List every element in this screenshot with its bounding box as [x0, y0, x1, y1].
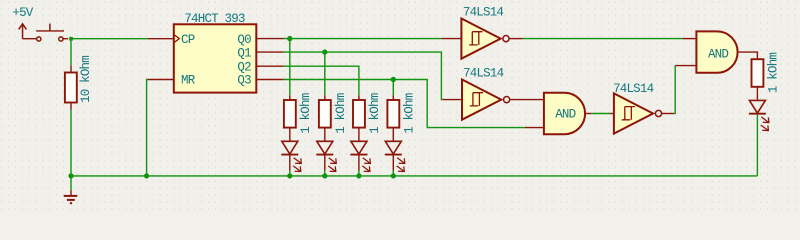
wire Q1 down to R3 [324, 52, 326, 95]
inverter U2A 74LS14 [461, 19, 509, 59]
svg-text:10 kOhm: 10 kOhm [79, 56, 93, 103]
LED D5 [749, 100, 769, 130]
wire Q0 to inverter U2A input [284, 38, 442, 40]
wire D1 to ground bus [289, 171, 291, 176]
wire power to switch [23, 38, 37, 40]
pin stub AND U4A lower input [675, 65, 696, 67]
svg-text:Q3: Q3 [237, 74, 251, 88]
LED D3 [350, 141, 370, 171]
wire Q3 down to R5 [392, 80, 394, 96]
wire Q2 down to R4 [284, 66, 359, 95]
resistor R1 10 kOhm [65, 65, 77, 109]
pin stub AND U4A top input [683, 38, 697, 40]
LED D4 [385, 141, 405, 171]
svg-text:+5V: +5V [12, 6, 33, 20]
pin stub inverter U2C input [610, 113, 614, 115]
svg-text:74HCT 393: 74HCT 393 [184, 12, 245, 26]
svg-text:74LS14: 74LS14 [613, 82, 654, 96]
inverter U2B 74LS14 [462, 80, 510, 120]
svg-text:MR: MR [181, 74, 196, 88]
junction ground bus / D1 [287, 173, 292, 178]
junction Q3 / R5 [391, 77, 396, 82]
pin stub AND U3A lower input [525, 127, 544, 129]
junction ground bus / MR [144, 173, 149, 178]
AND gate U3A [544, 93, 585, 134]
svg-text:1 kOhm: 1 kOhm [767, 53, 781, 94]
junction ground bus / R1 [68, 173, 73, 178]
wire D5 to ground bus [756, 115, 758, 176]
pin stub inverter U2A input [441, 38, 461, 40]
resistor R3 1 kOhm [319, 95, 331, 141]
resistor R2 1 kOhm [284, 95, 296, 141]
wire Q0 down to R2 [289, 39, 291, 96]
svg-text:AND: AND [708, 48, 728, 62]
wire D2 to ground bus [324, 171, 326, 176]
svg-text:Q2: Q2 [237, 60, 251, 74]
inverter U2C 74LS14 [614, 93, 662, 133]
junction ground bus / D4 [391, 173, 396, 178]
wire D4 to ground bus [392, 171, 394, 176]
pin stub inverter U2A output [509, 38, 522, 40]
clock chevron on CP [174, 35, 179, 42]
svg-text:Q0: Q0 [237, 33, 251, 47]
svg-text:74LS14: 74LS14 [463, 6, 504, 20]
wire junction A to CP stub [72, 38, 148, 40]
switch SW1 (push button) [36, 24, 68, 42]
junction ground bus / D2 [322, 173, 327, 178]
ground bus wire [71, 175, 757, 177]
LED D2 [316, 141, 336, 171]
wire U2C output up to AND U4A lower input [674, 66, 675, 114]
junction Q1 / R3 [322, 49, 327, 54]
wire MR to ground bus [147, 80, 148, 176]
resistor R4 1 kOhm [353, 95, 365, 141]
AND gate U4A [696, 31, 737, 72]
svg-text:74LS14: 74LS14 [463, 66, 504, 80]
svg-text:1 kOhm: 1 kOhm [299, 93, 313, 134]
pin Q2 stub [256, 65, 283, 67]
wire junction A down to R1 [70, 39, 72, 66]
resistor R5 1 kOhm [387, 95, 399, 141]
pin stub inverter U2C output [662, 113, 674, 115]
pin CP stub [148, 38, 174, 40]
wire U3A output to inverter U2C input [591, 113, 610, 115]
resistor R6 1 kOhm [752, 59, 764, 100]
wire D3 to ground bus [358, 171, 360, 176]
junction ground bus / D3 [356, 173, 361, 178]
pin Q1 stub [256, 51, 283, 53]
pin Q0 stub [256, 38, 283, 40]
svg-text:CP: CP [181, 33, 195, 47]
IC U1 74HCT393 body [174, 24, 256, 92]
power +5V [12, 6, 33, 39]
wire Q3 to AND U3A lower input [284, 80, 525, 128]
wire U4A output to R6 [738, 52, 758, 59]
junction A (switch / R1 / CP) [69, 37, 73, 41]
ground [64, 176, 77, 203]
wire R1 to ground bus [70, 110, 72, 176]
pin stub AND U3A output [585, 113, 591, 115]
svg-text:1 kOhm: 1 kOhm [402, 93, 416, 134]
pin stub inverter U2B input [442, 99, 462, 101]
LED D1 [281, 141, 301, 171]
pin stub / wire U2B output to AND U3A top input [510, 99, 544, 101]
svg-text:Q1: Q1 [237, 46, 251, 60]
svg-text:1 kOhm: 1 kOhm [334, 93, 348, 134]
pin Q3 stub [256, 79, 283, 81]
wire Q1 to inverter U2B input [284, 52, 443, 100]
svg-text:AND: AND [555, 108, 575, 122]
wire U2A output to AND U4A top input [523, 38, 683, 40]
junction Q0 / R2 [287, 36, 292, 41]
svg-text:1 kOhm: 1 kOhm [368, 93, 382, 134]
pin MR stub [148, 79, 174, 81]
